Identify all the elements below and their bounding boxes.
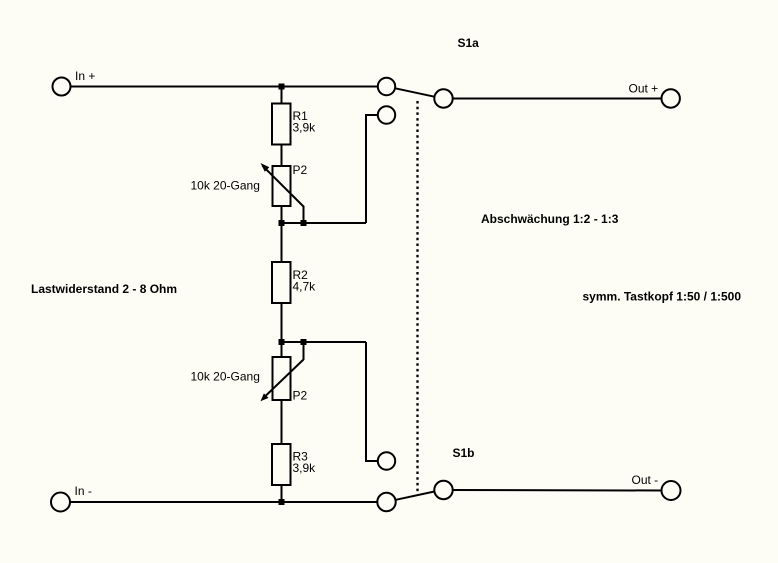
wire junction stub to R1 top	[281, 87, 283, 105]
wire P2 upper bottom through junction to R2 top	[281, 206, 283, 262]
node junction lower tap left	[279, 339, 285, 345]
wire P2 lower bottom to R3 top	[281, 400, 283, 444]
switch S1b common contact	[434, 481, 452, 499]
terminal Out-	[662, 481, 681, 500]
wire bottom rail In- to S1b pole	[70, 501, 378, 503]
node junction top rail	[279, 84, 285, 90]
svg-text:Out +: Out +	[629, 82, 659, 96]
switch S1b pole contact	[377, 493, 395, 511]
svg-text:Lastwiderstand 2 - 8 Ohm: Lastwiderstand 2 - 8 Ohm	[31, 282, 177, 296]
wire R3 bottom to bottom rail	[281, 485, 283, 502]
resistor R1	[272, 104, 291, 145]
wire S1a common to Out+	[453, 98, 661, 100]
switch S1a common contact	[434, 89, 452, 107]
wire top rail In+ to S1a pole	[70, 86, 378, 88]
switch S1b throw contact	[378, 452, 395, 469]
switch S1b lever	[396, 492, 435, 500]
node junction lower tap right	[301, 339, 307, 345]
node junction bottom rail	[279, 499, 285, 505]
node junction upper tap left	[279, 220, 285, 226]
wire lower tap rail vertical down	[365, 342, 367, 461]
svg-text:In +: In +	[75, 69, 95, 83]
svg-text:3,9k: 3,9k	[293, 120, 317, 134]
switch S1a throw contact	[378, 106, 395, 123]
node junction upper tap right	[301, 220, 307, 226]
wire lower tap rail horizontal	[282, 341, 367, 343]
wire lower tap to S1b throw contact	[365, 460, 378, 462]
wire upper tap rail vertical up	[365, 115, 367, 223]
svg-text:S1a: S1a	[458, 36, 480, 50]
svg-text:Out -: Out -	[632, 473, 659, 487]
resistor R3	[272, 444, 291, 485]
potentiometer P2 lower body	[273, 357, 291, 400]
wire upper tap rail horizontal	[282, 222, 367, 224]
svg-text:symm. Tastkopf 1:50 / 1:500: symm. Tastkopf 1:50 / 1:500	[583, 290, 742, 304]
switch S1a pole contact	[378, 78, 395, 95]
mechanical link S1a-S1b (dotted)	[416, 101, 418, 492]
terminal In-	[51, 493, 70, 512]
terminal In+	[53, 78, 71, 96]
potentiometer P2 upper wiper arrow shaft	[263, 166, 305, 207]
wire S1b common to Out-	[453, 489, 662, 492]
svg-text:S1b: S1b	[453, 446, 475, 460]
wire P2 upper wiper down to tap rail	[303, 206, 305, 223]
potentiometer P2 upper body	[273, 166, 291, 206]
terminal Out+	[662, 89, 680, 107]
svg-text:4,7k: 4,7k	[293, 280, 317, 294]
svg-text:Abschwächung 1:2 - 1:3: Abschwächung 1:2 - 1:3	[481, 212, 619, 226]
svg-text:In -: In -	[75, 484, 92, 498]
svg-text:10k 20-Gang: 10k 20-Gang	[191, 370, 260, 384]
svg-text:P2: P2	[293, 389, 308, 403]
potentiometer P2 upper wiper arrowhead	[261, 163, 270, 172]
switch S1a lever	[395, 88, 434, 96]
svg-text:10k 20-Gang: 10k 20-Gang	[191, 179, 260, 193]
wire R1 bottom to P2 upper top	[281, 145, 283, 167]
potentiometer P2 lower wiper arrowhead	[261, 393, 269, 401]
potentiometer P2 lower wiper arrow shaft	[262, 360, 303, 400]
wire P2 lower wiper stub from junction	[303, 342, 305, 360]
wire R2 bottom through junction to P2 lower top	[281, 303, 283, 357]
svg-text:P2: P2	[293, 163, 308, 177]
wire upper tap to S1a throw contact	[365, 114, 378, 116]
svg-text:3,9k: 3,9k	[293, 461, 317, 475]
resistor R2	[272, 262, 291, 303]
